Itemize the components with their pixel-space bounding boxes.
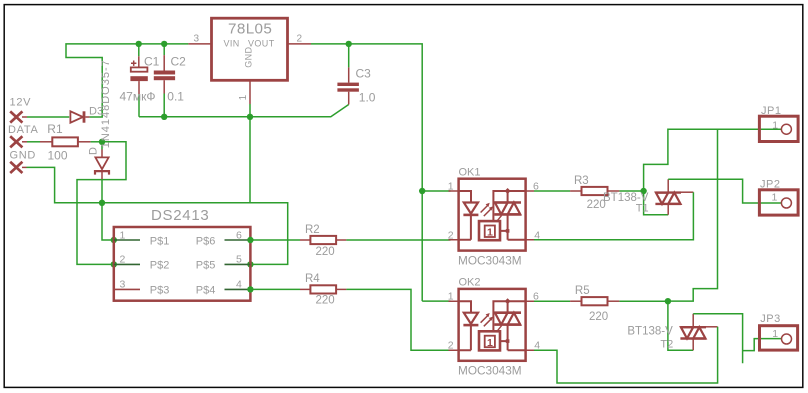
light arrows <box>481 205 492 216</box>
junction C1 top <box>136 41 142 47</box>
wire OK1 pin6 to R3 <box>534 190 570 192</box>
svg-text:R1: R1 <box>47 122 63 136</box>
svg-text:JP1: JP1 <box>761 105 781 117</box>
diode D3 <box>70 106 103 123</box>
wire to OK1 pin 1 <box>422 190 450 192</box>
svg-text:1: 1 <box>487 337 493 349</box>
IC DS2413 <box>114 207 251 301</box>
optocoupler OK2 <box>448 277 541 378</box>
svg-text:OK1: OK1 <box>459 166 481 178</box>
wire ground to DS2413 pin 5 <box>250 203 288 265</box>
connector JP2 <box>759 179 798 216</box>
svg-text:6: 6 <box>236 229 242 241</box>
wire pin1 to ground rail <box>249 104 251 117</box>
svg-text:C2: C2 <box>171 55 187 69</box>
wire 12V X to D3 anode <box>22 116 27 118</box>
svg-text:DATA: DATA <box>8 124 39 136</box>
connector JP1 <box>759 105 798 142</box>
pin P$5 <box>225 263 251 265</box>
junction DS pin6 <box>247 237 253 243</box>
svg-text:T1: T1 <box>636 203 649 215</box>
svg-text:12V: 12V <box>10 97 32 109</box>
pin 2 of 78L05 <box>288 43 312 45</box>
resistor R4 <box>300 273 346 307</box>
resistor R1 <box>40 122 91 162</box>
capacitor C3 <box>337 44 375 105</box>
pin P$6 <box>225 239 251 241</box>
svg-text:P$2: P$2 <box>150 260 170 272</box>
svg-text:1N4148DO35-7: 1N4148DO35-7 <box>100 59 112 148</box>
svg-text:P$4: P$4 <box>196 285 216 297</box>
junction DS pin2 <box>111 261 117 267</box>
svg-text:4: 4 <box>236 279 242 291</box>
triac T2 BT138-V <box>627 314 717 351</box>
svg-text:220: 220 <box>589 311 608 323</box>
pin P$3 <box>114 288 140 290</box>
svg-text:VIN: VIN <box>224 38 240 48</box>
svg-text:D: D <box>88 147 100 155</box>
wire T1 MT2 to JP2 <box>668 179 781 203</box>
junction C2 top <box>161 41 167 47</box>
node GND <box>10 150 37 173</box>
wire T2 gate to OK2 pin4 <box>534 327 718 383</box>
triac inside OK1 <box>494 203 521 215</box>
triac T1 BT138-V <box>603 179 693 215</box>
svg-text:47мкФ: 47мкФ <box>120 90 156 104</box>
svg-text:R4: R4 <box>305 273 320 285</box>
junction DS pin5 <box>247 261 253 267</box>
svg-text:MOC3043M: MOC3043M <box>458 253 522 267</box>
wire R5 to T2 node <box>619 300 668 302</box>
svg-text:0.1: 0.1 <box>167 90 184 104</box>
junction R1/D/DATA <box>99 139 105 145</box>
svg-text:1: 1 <box>772 119 778 131</box>
wire R2 to OK1 pin2 <box>346 239 450 241</box>
resistor R2 <box>300 224 346 258</box>
wire JP1 branch down <box>668 129 718 301</box>
junction R5/T2 <box>665 298 671 304</box>
diode D 1N4148 <box>88 59 112 179</box>
capacitor C2 <box>154 44 186 117</box>
wire T1 gate to OK1 pin4 <box>534 192 693 240</box>
svg-text:OK2: OK2 <box>459 277 481 289</box>
svg-text:5: 5 <box>236 254 242 266</box>
svg-text:1: 1 <box>487 227 493 239</box>
svg-text:GND: GND <box>244 47 254 68</box>
pin P$2 <box>114 263 140 265</box>
capacitor C1 <box>120 44 160 117</box>
optocoupler OK1 <box>448 166 541 267</box>
svg-text:C1: C1 <box>144 55 160 69</box>
svg-text:GND: GND <box>10 150 37 162</box>
wire R1 to node <box>91 141 102 143</box>
junction OK1 pin1 branch <box>419 188 425 194</box>
junction DS pin4 <box>247 286 253 292</box>
svg-text:220: 220 <box>316 294 335 306</box>
svg-text:DS2413: DS2413 <box>151 207 209 224</box>
junction pin1/ground <box>247 114 253 120</box>
pin P$4 <box>225 288 251 290</box>
svg-text:P$3: P$3 <box>150 285 170 297</box>
svg-text:3: 3 <box>194 34 200 45</box>
wire OK2 pin6 to R5 <box>534 300 570 302</box>
svg-text:1: 1 <box>772 328 778 340</box>
pin 3 of 78L05 <box>188 43 211 45</box>
wire 5V rail pin2 to OK pins <box>311 44 422 301</box>
svg-text:100: 100 <box>48 148 68 162</box>
LED inside OK1 <box>459 191 471 203</box>
svg-text:T2: T2 <box>660 338 673 350</box>
svg-text:C3: C3 <box>356 66 372 80</box>
connector JP3 <box>760 313 798 350</box>
svg-text:2: 2 <box>297 34 303 45</box>
svg-text:P$1: P$1 <box>150 235 170 247</box>
junction DS pin1 <box>111 237 117 243</box>
pin P$1 <box>114 239 140 241</box>
wire pin4 to R4 <box>250 288 300 290</box>
wire to OK2 pin 1 <box>422 300 450 302</box>
svg-text:2: 2 <box>120 254 126 266</box>
resistor R3 <box>570 175 619 211</box>
svg-text:220: 220 <box>316 246 335 258</box>
wire R4 to OK2 pin2 <box>346 289 450 350</box>
pin 1 of 78L05 <box>249 80 251 104</box>
junction D/GND <box>99 200 105 206</box>
wire to JP3 pin <box>743 339 782 351</box>
svg-text:1: 1 <box>238 94 249 100</box>
svg-text:MOC3043M: MOC3043M <box>458 364 522 378</box>
node 12V <box>10 97 32 123</box>
wire node to JP1 <box>644 129 782 191</box>
svg-text:P$6: P$6 <box>196 235 216 247</box>
zero-cross box with 1 <box>479 221 500 240</box>
LED inside OK2 <box>459 301 471 313</box>
svg-text:R2: R2 <box>305 224 320 236</box>
svg-text:R3: R3 <box>574 175 589 187</box>
svg-text:P$5: P$5 <box>196 260 216 272</box>
wire pin6 to R2 <box>250 239 300 241</box>
svg-text:1: 1 <box>120 229 126 241</box>
wire GND X to ground rail <box>22 166 27 168</box>
node DATA <box>8 124 39 147</box>
junction C2 bottom <box>161 114 167 120</box>
wire D to DS2413 pin 1 <box>102 179 114 240</box>
light arrows <box>481 315 492 326</box>
ground rail wire <box>139 105 349 117</box>
wire T2 MT2 to JP3 <box>693 314 742 364</box>
junction R3/T1 <box>640 188 646 194</box>
wire R3 to T1 node <box>619 190 643 192</box>
zero-cross box with 1 <box>479 331 500 350</box>
triac inside OK2 <box>494 313 521 325</box>
wire DATA node to DS2413 pin 2 <box>77 142 126 265</box>
svg-text:R5: R5 <box>575 285 590 297</box>
svg-text:78L05: 78L05 <box>228 21 272 38</box>
svg-text:1.0: 1.0 <box>359 90 376 104</box>
svg-text:JP2: JP2 <box>760 179 780 191</box>
wire D3 cathode to VIN rail <box>66 44 188 117</box>
svg-text:JP3: JP3 <box>760 313 780 325</box>
svg-text:3: 3 <box>120 279 126 291</box>
regulator IC 78L05 <box>212 18 288 80</box>
wire DATA X to R1 <box>22 141 27 143</box>
svg-text:1: 1 <box>772 192 778 204</box>
resistor R5 <box>570 285 619 323</box>
junction C3 top <box>346 41 352 47</box>
wire node to T2 MT1 <box>668 301 693 350</box>
wire node to T1 MT1 <box>644 191 669 215</box>
svg-text:BT138-V: BT138-V <box>627 325 673 337</box>
